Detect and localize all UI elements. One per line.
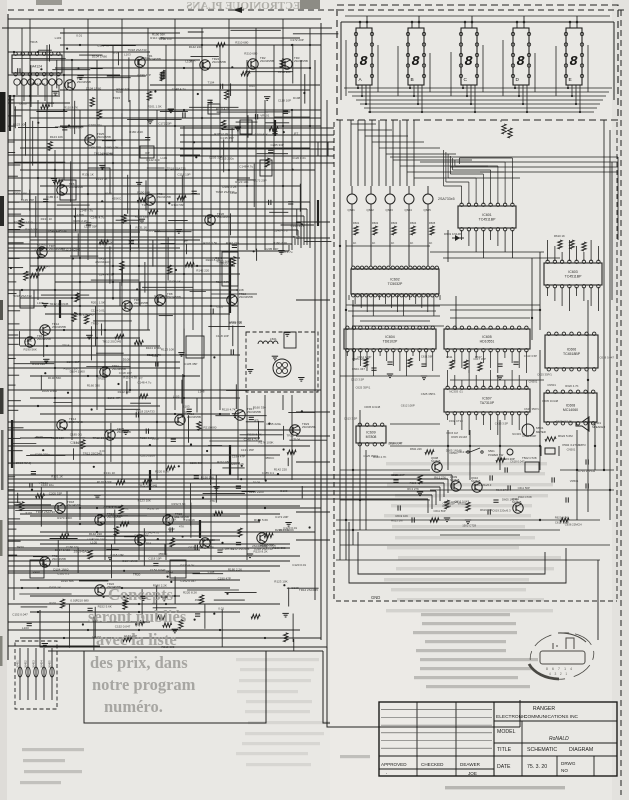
svg-text:D108: D108 [293,96,301,100]
gnd dashed line [336,600,617,602]
svg-text:IC605: IC605 [482,335,491,339]
svg-text:2SC945/5B: 2SC945/5B [260,59,274,63]
svg-text:R110 4.7K: R110 4.7K [222,408,236,412]
svg-text:R142 220: R142 220 [196,269,209,273]
svg-text:C135 35P: C135 35P [184,362,197,366]
svg-text:TR15: TR15 [30,40,38,44]
C731 cap [585,459,587,464]
svg-text:1K: 1K [372,241,375,245]
mid bus wires [8,201,310,203]
svg-text:R180 2.2K: R180 2.2K [73,219,87,223]
svg-text:C118 10P: C118 10P [278,99,291,103]
svg-text:IC602: IC602 [390,278,399,282]
svg-text:D605 1N148: D605 1N148 [365,405,381,409]
svg-text:R160 330: R160 330 [87,384,100,388]
svg-text:47K: 47K [210,499,215,503]
svg-text:C135 35P: C135 35P [21,198,34,202]
svg-text:TR12 2SC945: TR12 2SC945 [102,339,121,343]
svg-text:X101: X101 [49,601,56,605]
display box dashed border [337,5,618,120]
svg-text:R142 220: R142 220 [147,158,160,162]
left edge scan artifacts [0,92,6,132]
svg-text:des prix, dans: des prix, dans [90,653,188,672]
svg-text:C172 20P: C172 20P [278,70,291,74]
svg-text:R220 8.2K: R220 8.2K [155,470,169,474]
transistor TR17 [235,410,245,420]
svg-text:C172 20P: C172 20P [253,179,266,183]
svg-text:C148 4.7u: C148 4.7u [137,380,151,384]
svg-text:CN501: CN501 [547,383,556,387]
svg-text:C135 35P: C135 35P [241,448,254,452]
IC602 bottom wires [348,295,350,300]
svg-text:2SC945/5B: 2SC945/5B [52,325,66,329]
svg-text:R220 8.2K: R220 8.2K [248,433,262,437]
svg-text:DRWG: DRWG [561,761,576,766]
svg-text:TD6102P: TD6102P [383,340,398,344]
left block bottom double border outer [40,610,327,647]
transistor Q602 [366,194,376,204]
svg-text:C190 47P: C190 47P [229,320,242,324]
svg-text:0.01: 0.01 [76,33,82,37]
svg-text:C205 33P: C205 33P [265,247,278,251]
svg-text:R201 1.5K: R201 1.5K [91,301,105,305]
svg-text:C611: C611 [446,355,453,359]
svg-text:R201 1.5K: R201 1.5K [203,241,217,245]
svg-text:8: 8 [359,54,368,70]
right section dashed border left [333,122,335,601]
svg-text:B: B [411,77,414,83]
svg-text:CN501: CN501 [442,504,451,508]
svg-text:C118 10P: C118 10P [216,334,229,338]
svg-text:R123 10K: R123 10K [50,135,63,139]
svg-text:2SC945/5B: 2SC945/5B [77,80,91,84]
svg-text:2SC945/5B: 2SC945/5B [167,295,181,299]
left block capacitors [38,248,43,250]
left block grounds [264,96,270,98]
svg-text:455KC: 455KC [112,197,122,201]
svg-text:C215 220u: C215 220u [35,452,50,456]
svg-text:TR20: TR20 [184,410,192,414]
svg-text:A4124: A4124 [32,65,42,69]
svg-text:47K: 47K [215,485,220,489]
svg-text:TC4511BP: TC4511BP [565,275,583,279]
svg-text:1502 CT28: 1502 CT28 [449,419,463,423]
svg-text:M7808: M7808 [366,435,377,439]
svg-text:avec la liste: avec la liste [96,630,177,649]
svg-text:C160 10u: C160 10u [41,483,54,487]
svg-text:TA7310P: TA7310P [480,401,495,405]
svg-text:seront publiés: seront publiés [88,607,187,626]
svg-text:C611 56P: C611 56P [434,509,446,513]
transistor TR14 [57,420,67,430]
svg-text:C215 220u: C215 220u [140,454,155,458]
lower bus wires [8,474,452,476]
svg-text:R160 330: R160 330 [135,214,148,218]
bottom wire right edge [597,560,599,640]
svg-text:Q603: Q603 [386,208,394,212]
svg-text:R210 680: R210 680 [76,599,89,603]
IC605 HD10551 [444,329,530,349]
svg-text:2SC945/5B: 2SC945/5B [52,557,66,561]
svg-text:L103: L103 [55,36,62,40]
svg-text:L105: L105 [161,156,168,160]
svg-text:C148 4.7u: C148 4.7u [239,165,253,169]
left block long horizontal wires [60,44,321,46]
svg-text:IC608: IC608 [566,404,575,408]
svg-text:C160 10u: C160 10u [66,545,79,549]
transistor TR9 [122,301,132,311]
svg-text:TC4518BP: TC4518BP [563,352,581,356]
svg-text:R620 4.7K: R620 4.7K [565,384,578,388]
svg-text:R622 5.6M: R622 5.6M [558,434,573,438]
svg-text:2SC945/5B: 2SC945/5B [97,135,111,139]
svg-text:R131 1K: R131 1K [147,507,159,511]
svg-text:T104: T104 [293,437,300,441]
svg-text:JOE: JOE [468,771,477,776]
lower band extra wires [8,505,300,507]
svg-text:C152 0.047: C152 0.047 [12,612,28,616]
svg-text:2SC945/5B: 2SC945/5B [157,195,171,199]
svg-text:VR101: VR101 [260,114,270,118]
svg-text:C148 4.7u: C148 4.7u [274,229,288,233]
svg-text:C625 35P/1: C625 35P/1 [421,392,436,396]
svg-text:C120 0.01: C120 0.01 [154,294,168,298]
svg-text:L501: L501 [270,337,277,341]
svg-text:R110 4.7K: R110 4.7K [123,376,137,380]
svg-text:R605: R605 [429,221,436,225]
left block heavy ink spots [11,420,13,468]
svg-text:C190 47P: C190 47P [97,44,110,48]
speaker symbol [576,417,589,431]
trimmer C603 [507,449,513,455]
svg-text:TR18 2SA733: TR18 2SA733 [167,167,186,171]
svg-text:C619 220u/6.3: C619 220u/6.3 [492,508,511,512]
svg-text:TR18 2SA733: TR18 2SA733 [254,547,273,551]
svg-text:8: 8 [464,54,473,70]
svg-text:8: 8 [516,54,525,70]
left block extra short segments [228,242,230,269]
svg-text:.: . [386,770,387,776]
svg-text:C160 10u: C160 10u [89,123,102,127]
svg-text:2SC945/5B: 2SC945/5B [67,503,81,507]
svg-text:C611 56P: C611 56P [518,486,530,490]
right block vertical wires [339,120,341,560]
svg-text:R131 1K: R131 1K [96,177,108,181]
svg-text:R210 680: R210 680 [244,52,257,56]
extra passives lower right [397,505,399,510]
svg-text:DATE: DATE [497,764,511,770]
svg-text:R152 5.6K: R152 5.6K [31,82,45,86]
svg-text:R180 2.2K: R180 2.2K [129,130,143,134]
svg-text:2SC945/5B: 2SC945/5B [239,295,253,299]
svg-text:R620 4.7K: R620 4.7K [373,455,386,459]
bottom left connector dashed box [15,641,57,709]
transistor TR1 [135,57,145,67]
transistor TR26 [205,215,215,225]
svg-text:TR15: TR15 [293,235,301,239]
svg-text:NC303 .01: NC303 .01 [449,389,463,393]
svg-text:1K: 1K [429,241,432,245]
svg-text:DIAGRAM: DIAGRAM [569,747,593,753]
svg-text:D108: D108 [292,586,300,590]
wire web between counters [430,251,544,253]
svg-text:8 6 7 1 4: 8 6 7 1 4 [546,667,574,671]
svg-text:D: D [516,77,520,83]
oscillator transistors lower right [432,462,442,472]
svg-text:R190 56K: R190 56K [201,475,214,479]
svg-text:C613 3.5P: C613 3.5P [495,421,508,425]
svg-text:R110 4.7K: R110 4.7K [216,107,230,111]
svg-text:C205 33P: C205 33P [271,143,284,147]
svg-text:R142 220: R142 220 [89,532,102,536]
svg-text:E: E [569,77,572,83]
outer dashed frame top [8,9,625,11]
svg-text:D108: D108 [236,288,244,292]
svg-text:ELECTRONIC: ELECTRONIC [496,714,527,720]
svg-text:J6451: J6451 [16,660,20,668]
svg-text:8: 8 [411,54,420,70]
svg-text:T104: T104 [208,81,215,85]
svg-text:L103: L103 [173,395,180,399]
IC604 TD6102P [344,329,436,349]
svg-text:R220 8.2K: R220 8.2K [68,126,82,130]
svg-text:VR501: VR501 [570,479,579,483]
svg-text:C613 3.5P: C613 3.5P [344,417,357,421]
svg-text:TR20: TR20 [99,257,107,261]
faint bleed-through text column behind right circuit [386,462,547,465]
transistor Q605 [423,194,433,204]
svg-text:RANGER: RANGER [533,706,555,712]
left block resistors [225,90,229,99]
horizontals reaching right edge [296,221,330,223]
svg-text:R180 2.2K: R180 2.2K [222,185,236,189]
svg-text:C120 0.01: C120 0.01 [292,156,306,160]
transistor TR19 [95,515,105,525]
svg-text:1502 CT28: 1502 CT28 [518,495,532,499]
svg-text:C118 10P: C118 10P [148,557,161,561]
transistor Q603 [385,194,395,204]
svg-text:R110 4.7K: R110 4.7K [216,280,230,284]
svg-text:C618 0.047: C618 0.047 [510,460,525,464]
svg-text:D108: D108 [253,481,261,485]
svg-text:C617 33P: C617 33P [473,357,486,361]
lower band transistors [135,535,145,545]
svg-text:C215 220u: C215 220u [207,214,222,218]
svg-text:R615 1M: R615 1M [447,431,459,435]
svg-text:IC603: IC603 [568,270,577,274]
svg-text:C118 10P: C118 10P [177,172,190,176]
svg-text:MC14060: MC14060 [563,408,578,412]
svg-text:R131 1K: R131 1K [82,173,94,177]
svg-text:IFT: IFT [294,131,299,135]
svg-text:D605 1N148: D605 1N148 [542,399,558,403]
svg-text:0.01: 0.01 [249,84,255,88]
svg-text:X101: X101 [143,56,150,60]
svg-text:R603: R603 [391,221,398,225]
svg-text:C604 .047: C604 .047 [352,367,365,371]
svg-text:R180 2.2K: R180 2.2K [214,132,228,136]
svg-text:Q601: Q601 [348,208,356,212]
svg-text:APPROVED: APPROVED [381,762,407,767]
IC603 wires [547,240,549,261]
svg-text:455KC: 455KC [37,243,47,247]
svg-text:TR20: TR20 [116,90,124,94]
transistor TR25 [85,135,95,145]
svg-text:R131 1K: R131 1K [136,226,148,230]
left block long vertical wires [13,95,15,600]
svg-text:HD10551: HD10551 [480,340,495,344]
svg-text:VR501: VR501 [449,451,458,455]
svg-text:D108: D108 [280,489,288,493]
svg-text:C215 220u: C215 220u [219,157,234,161]
svg-text:R131 1K: R131 1K [169,279,181,283]
svg-text:C625 35P/1: C625 35P/1 [356,385,371,389]
R622 5.6M [545,437,556,441]
svg-text:455KC: 455KC [265,456,275,460]
svg-text:R123 10K: R123 10K [235,180,248,184]
svg-text:IC604: IC604 [385,335,394,339]
svg-text:D104 1N60: D104 1N60 [122,559,138,563]
svg-text:2SC945/5B: 2SC945/5B [187,415,201,419]
transistor TR12 [40,325,50,335]
svg-text:TC4511BP: TC4511BP [479,218,497,222]
svg-text:J6453: J6453 [32,660,36,668]
svg-text:IC606: IC606 [567,348,576,352]
transistor TR24 [200,60,210,70]
connector pins J6451-J6455 [19,648,21,700]
svg-text:D108: D108 [19,102,27,106]
svg-text:TR15: TR15 [62,344,70,348]
svg-text:TR18 2SA733: TR18 2SA733 [13,294,32,298]
transistor TR13 [25,337,35,347]
svg-text:C: C [464,77,468,83]
IC608 MC14060 [544,393,597,422]
bottom vertical wire x520 [519,700,521,727]
resistor pullups in bundle [502,124,506,134]
left edge connector stubs [8,99,14,101]
svg-text:0.01: 0.01 [113,51,119,55]
svg-text:C613 3.5P: C613 3.5P [524,354,537,358]
display section left vertical wire [340,22,342,100]
junction dots right block [339,245,341,247]
svg-text:47K: 47K [16,503,21,507]
svg-text:R170 100K: R170 100K [97,480,112,484]
transistor TR4 [65,80,75,90]
faint bleed-through text column bottom-middle [236,658,319,661]
svg-text:C611 56P: C611 56P [421,355,433,359]
transistor TR16 [175,415,185,425]
svg-text:R142 220: R142 220 [32,362,45,366]
svg-text:R610 1K: R610 1K [554,234,565,238]
svg-text:C148 4.7u: C148 4.7u [291,224,305,228]
crystal X502 [545,448,555,454]
svg-text:TR18 2SA733: TR18 2SA733 [136,409,155,413]
svg-text:TR12 2SC945: TR12 2SC945 [138,483,157,487]
svg-text:L108: L108 [198,390,205,394]
svg-text:L103: L103 [183,404,190,408]
left block bottom double border inner [48,650,323,652]
svg-text:C185 0.1: C185 0.1 [70,433,83,437]
wires around IC607 [447,414,449,420]
svg-text:L105: L105 [217,304,224,308]
svg-text:C148 4.7u: C148 4.7u [99,273,113,277]
lower right passives [418,475,422,484]
left block short wire segments [190,483,192,526]
svg-text:C215 220u: C215 220u [70,441,85,445]
svg-text:D104 1N60: D104 1N60 [146,346,162,350]
svg-text:R620 4.7K: R620 4.7K [389,441,402,445]
svg-text:C613 3.5P: C613 3.5P [351,378,364,382]
components between IC rows right [450,360,454,369]
svg-text:L103: L103 [168,527,175,531]
svg-text:R201 1.5K: R201 1.5K [275,528,289,532]
svg-text:D601 1N148: D601 1N148 [444,232,461,236]
svg-text:0.01: 0.01 [35,248,41,252]
svg-text:R142 220: R142 220 [189,45,202,49]
svg-text:T104: T104 [142,203,149,207]
svg-text:D605 1N148: D605 1N148 [451,435,467,439]
svg-text:X502 3.2768MHz: X502 3.2768MHz [562,443,586,447]
right section nested loop wire outer [349,522,566,583]
svg-text:TC5032P: TC5032P [388,282,403,286]
transistor TR10 [227,295,237,305]
svg-text:R131 1K: R131 1K [41,217,53,221]
third bus wires [8,555,300,557]
left block junction dots [138,603,140,605]
bleed-through text left of table [22,748,84,751]
wire bundle from displays down to decoder [350,120,352,186]
outer dashed frame right [620,10,622,795]
display section right vertical wire [613,22,615,100]
svg-text:D104 1N60: D104 1N60 [42,389,58,393]
left block outer wires [7,14,9,660]
svg-text:C172 20P: C172 20P [275,515,288,519]
svg-text:R190 56K: R190 56K [24,348,37,352]
svg-text:C148 4.7u: C148 4.7u [279,250,293,254]
transistor Q604 [404,194,414,204]
svg-text:R110 4.7K: R110 4.7K [64,105,78,109]
svg-text:C148 4.7u: C148 4.7u [145,530,159,534]
svg-text:POWER SW: POWER SW [488,453,504,457]
svg-text:C190 47P: C190 47P [159,37,172,41]
svg-text:455KC: 455KC [195,598,205,602]
left block component boxes [88,168,110,194]
svg-text:J6454: J6454 [40,660,44,668]
svg-text:R131 1K: R131 1K [104,471,116,475]
seven-segment display C [461,28,477,85]
IC606 TC4518BP [545,335,598,368]
svg-text:IC609: IC609 [366,431,375,435]
svg-text:47K: 47K [179,524,184,528]
svg-text:TR20: TR20 [98,376,106,380]
svg-text:1K: 1K [353,241,356,245]
svg-text:2SC945/5B: 2SC945/5B [302,425,316,429]
seven-segment display A [356,28,372,85]
right block horizontal wires [346,245,430,247]
svg-text:Concepts: Concepts [108,585,174,604]
transistor TR3 [282,59,292,69]
svg-text:1K: 1K [391,241,394,245]
svg-text:R190 56K: R190 56K [255,132,268,136]
wire bus from display box to counters [180,127,334,129]
svg-text:C625 35P/1: C625 35P/1 [537,373,552,377]
svg-text:RoNALD: RoNALD [549,736,569,742]
svg-text:2SA733x5: 2SA733x5 [438,197,455,201]
svg-text:R142 220: R142 220 [118,390,131,394]
svg-text:CN501: CN501 [567,448,576,452]
svg-text:2SC945/5B: 2SC945/5B [134,301,148,305]
transformer T501 [273,359,291,377]
